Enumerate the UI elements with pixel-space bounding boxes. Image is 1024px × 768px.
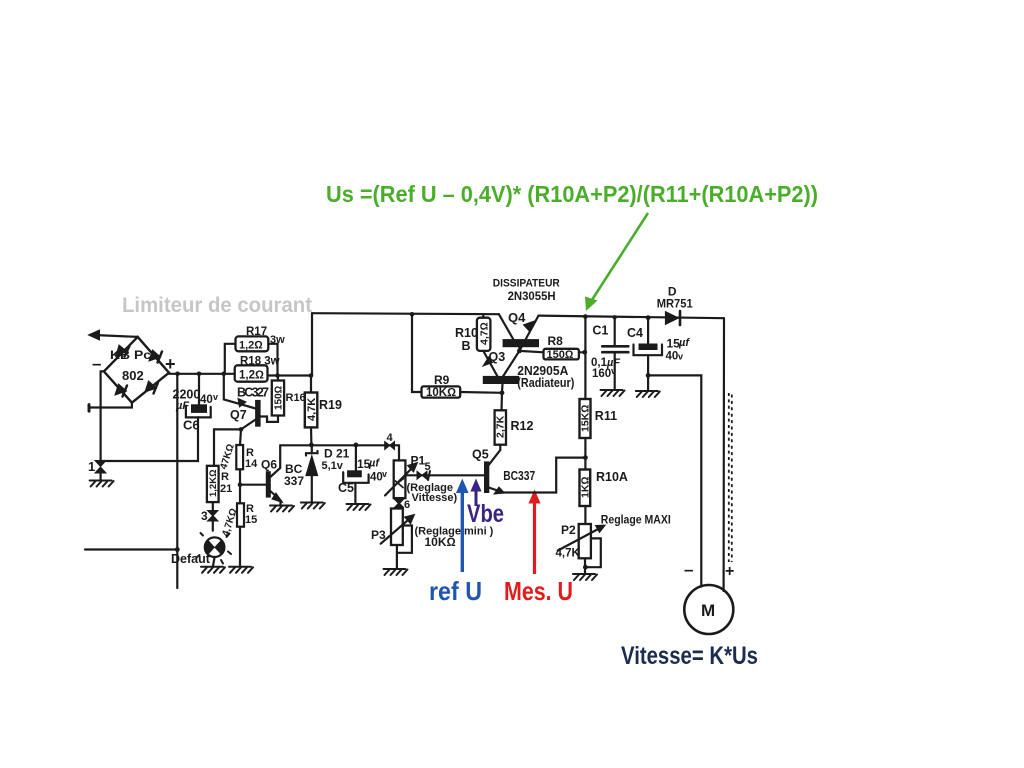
ground under C4 — [636, 391, 660, 397]
wire: Q7 emitter to R21 — [214, 429, 241, 465]
potentiometer P1 — [385, 454, 457, 505]
bridge rectifier KBPc802 — [92, 337, 176, 403]
green formula: Us =(Ref U - 0,4V)* (R10A+P2)/(R11+(R10A+P2)) — [326, 181, 818, 207]
resistor R14 — [218, 429, 258, 487]
wire: control row y=445.2 — [280, 443, 399, 461]
svg-text:MR751: MR751 — [657, 299, 694, 311]
wire: rail drop x=585 — [582, 317, 587, 399]
svg-text:10KΩ: 10KΩ — [426, 387, 456, 399]
svg-text:R19: R19 — [319, 398, 342, 412]
wire: Defaut row y=549.5 — [85, 548, 177, 550]
svg-text:6: 6 — [404, 499, 410, 511]
text Vbe — [467, 500, 504, 528]
resistor R16 — [260, 376, 306, 422]
svg-text:150Ω: 150Ω — [547, 349, 574, 361]
resistor R19 — [305, 376, 342, 445]
red arrow Mes. U — [528, 490, 540, 575]
zener 3 — [201, 502, 218, 530]
svg-text:µf: µf — [368, 458, 380, 470]
green annotation arrow — [585, 213, 648, 311]
svg-text:5,1v: 5,1v — [322, 460, 344, 472]
svg-text:P2: P2 — [561, 523, 576, 537]
transistor Q3 2N2905A — [483, 350, 574, 395]
svg-text:R17: R17 — [246, 326, 267, 338]
svg-text:(Radiateur): (Radiateur) — [517, 376, 574, 390]
top rail wire — [312, 312, 724, 320]
transistor Q7 BC327 — [224, 374, 269, 432]
svg-text:R9: R9 — [434, 373, 450, 387]
ground under lamp — [201, 567, 225, 573]
svg-text:Vitesse= K*Us: Vitesse= K*Us — [621, 642, 758, 670]
potentiometer P3 — [371, 509, 494, 569]
diode D MR751 — [657, 285, 694, 326]
motor M — [684, 560, 734, 634]
svg-text:1KΩ: 1KΩ — [580, 477, 592, 499]
svg-text:Q6: Q6 — [261, 458, 277, 472]
svg-text:B: B — [462, 339, 471, 353]
text ref U — [429, 576, 482, 606]
svg-text:µf: µf — [678, 337, 690, 349]
svg-text:4,7Ω: 4,7Ω — [479, 322, 491, 345]
resistor R11 — [580, 399, 618, 460]
gray title: Limiteur de courant — [122, 294, 312, 317]
svg-text:+: + — [165, 354, 176, 374]
AC input arrow top-left — [89, 330, 138, 340]
svg-text:C5: C5 — [338, 481, 354, 495]
bridge diode (top-right edge) — [149, 350, 162, 363]
ground under diode 1 — [90, 481, 114, 487]
svg-text:R11: R11 — [595, 409, 617, 423]
svg-text:–: – — [92, 354, 101, 373]
svg-text:BC337: BC337 — [503, 469, 535, 483]
ground under P3 — [384, 569, 408, 575]
svg-text:150Ω: 150Ω — [274, 385, 285, 410]
ground under P2 — [573, 574, 597, 580]
svg-text:40: 40 — [370, 472, 383, 484]
svg-text:4,7K: 4,7K — [306, 398, 318, 421]
svg-text:v: v — [382, 469, 387, 479]
svg-text:2,7K: 2,7K — [495, 415, 507, 438]
AC input terminal bottom-left — [89, 403, 132, 411]
svg-text:C1: C1 — [592, 324, 608, 338]
potentiometer P2 — [556, 515, 671, 574]
svg-text:3w: 3w — [270, 334, 285, 346]
svg-text:2N3055H: 2N3055H — [508, 289, 556, 303]
svg-text:–: – — [684, 560, 693, 579]
wire: right rail corner down to motor plus — [722, 318, 725, 591]
svg-text:DISSIPATEUR: DISSIPATEUR — [493, 278, 560, 290]
svg-text:5: 5 — [425, 461, 431, 473]
diode 6 — [395, 498, 411, 511]
svg-text:1,2Ω: 1,2Ω — [239, 340, 263, 352]
svg-text:R8: R8 — [548, 334, 564, 348]
svg-text:1: 1 — [88, 459, 95, 474]
lamp Defaut — [171, 533, 231, 566]
wire: rail riser x=312 — [311, 313, 313, 375]
svg-text:21: 21 — [220, 483, 232, 495]
wire: Q5 emitter to R11/R10A junction — [503, 458, 585, 493]
bridge diode (bottom-left edge) — [115, 384, 127, 397]
wire: P1 wiper to Q5 base — [405, 474, 484, 476]
svg-text:10KΩ: 10KΩ — [425, 535, 456, 549]
text Vitesse= K*Us — [621, 642, 758, 670]
svg-text:+: + — [725, 563, 734, 580]
ground under D21 — [301, 503, 325, 509]
svg-text:R10A: R10A — [596, 470, 628, 484]
ground under C5 — [347, 504, 371, 510]
resistor R12 — [495, 393, 534, 450]
text DISSIPATEUR 2N3055H — [493, 278, 560, 304]
svg-text:Us =(Ref U – 0,4V)* (R10A+P2)/: Us =(Ref U – 0,4V)* (R10A+P2)/(R11+(R10A… — [326, 181, 818, 207]
svg-text:1,2KΩ: 1,2KΩ — [208, 470, 219, 497]
svg-text:P3: P3 — [371, 528, 386, 542]
svg-text:40: 40 — [200, 394, 213, 406]
ground under C1 — [601, 390, 625, 396]
svg-text:Reglage MAXI: Reglage MAXI — [601, 515, 671, 527]
zener D21 — [306, 445, 350, 502]
text Mes. U — [504, 576, 573, 606]
svg-text:v: v — [678, 352, 683, 362]
svg-text:15KΩ: 15KΩ — [580, 405, 592, 432]
svg-text:C4: C4 — [627, 326, 643, 340]
svg-text:40: 40 — [666, 351, 679, 363]
blue arrow ref U — [456, 479, 469, 573]
svg-text:Mes. U: Mes. U — [504, 576, 573, 606]
ground under Q6 emitter — [270, 506, 294, 512]
wire: C4 junction to motor minus — [648, 375, 701, 586]
svg-text:4,7K: 4,7K — [556, 548, 581, 560]
svg-text:BC327: BC327 — [237, 386, 269, 400]
svg-text:C6: C6 — [183, 418, 200, 433]
svg-text:R10: R10 — [455, 326, 478, 340]
svg-text:4: 4 — [387, 432, 394, 444]
resistor R10B — [455, 314, 491, 353]
svg-text:Q4: Q4 — [508, 310, 526, 325]
wire: main positive rail y=374 — [169, 372, 313, 378]
svg-text:v: v — [213, 392, 218, 402]
svg-text:D: D — [668, 285, 677, 299]
bridge diode (top-left edge) — [116, 345, 130, 357]
wire: bottom return y=461 — [101, 417, 198, 461]
transistor Q4 2N3055H — [499, 310, 539, 353]
dashed sense line — [729, 393, 732, 562]
resistor R18 — [235, 356, 280, 382]
resistor R10A — [580, 458, 628, 524]
resistor R21 — [207, 466, 232, 502]
svg-text:R16: R16 — [286, 392, 306, 404]
svg-text:Q5: Q5 — [472, 448, 489, 462]
capacitor C6 — [173, 374, 219, 433]
svg-text:15: 15 — [245, 514, 257, 526]
svg-text:337: 337 — [284, 474, 304, 488]
bridge diode (bottom-right edge) — [145, 381, 158, 394]
svg-text:P1: P1 — [411, 454, 426, 468]
svg-text:Q7: Q7 — [230, 408, 247, 422]
svg-text:14: 14 — [245, 458, 258, 470]
resistor R8 — [519, 334, 584, 361]
diode 1 — [88, 459, 106, 480]
wire: bridge left corner down to diode 1 — [101, 371, 104, 460]
svg-text:Limiteur de courant: Limiteur de courant — [122, 294, 312, 317]
svg-text:1,2Ω: 1,2Ω — [239, 370, 264, 382]
capacitor C4 — [627, 318, 690, 390]
transistor Q5 BC337 — [472, 448, 535, 495]
svg-text:Q3: Q3 — [489, 350, 506, 364]
ground under R15 — [229, 567, 253, 573]
svg-text:R12: R12 — [511, 419, 534, 433]
transistor Q6 BC337 — [240, 445, 304, 504]
svg-text:D 21: D 21 — [324, 447, 350, 461]
resistor R17 — [225, 326, 285, 376]
resistor R9 — [412, 314, 502, 399]
capacitor C5 — [338, 445, 387, 503]
capacitor C1 — [591, 315, 628, 388]
diode 4 — [385, 432, 395, 450]
svg-text:Vittesse): Vittesse) — [412, 492, 458, 504]
svg-text:ref U: ref U — [429, 576, 482, 606]
svg-text:Vbe: Vbe — [467, 500, 504, 528]
diode 5 — [417, 461, 431, 480]
wire: left drop x=177 — [175, 374, 180, 588]
svg-text:160: 160 — [592, 368, 611, 380]
svg-text:802: 802 — [122, 368, 144, 383]
svg-text:47KΩ: 47KΩ — [218, 442, 237, 470]
resistor R15 — [220, 485, 257, 567]
svg-text:M: M — [701, 601, 715, 620]
svg-text:v: v — [611, 366, 616, 376]
purple arrow Vbe — [470, 479, 481, 507]
svg-text:3: 3 — [201, 509, 208, 523]
svg-text:R: R — [221, 471, 229, 483]
svg-text:R18 3w: R18 3w — [240, 356, 280, 368]
